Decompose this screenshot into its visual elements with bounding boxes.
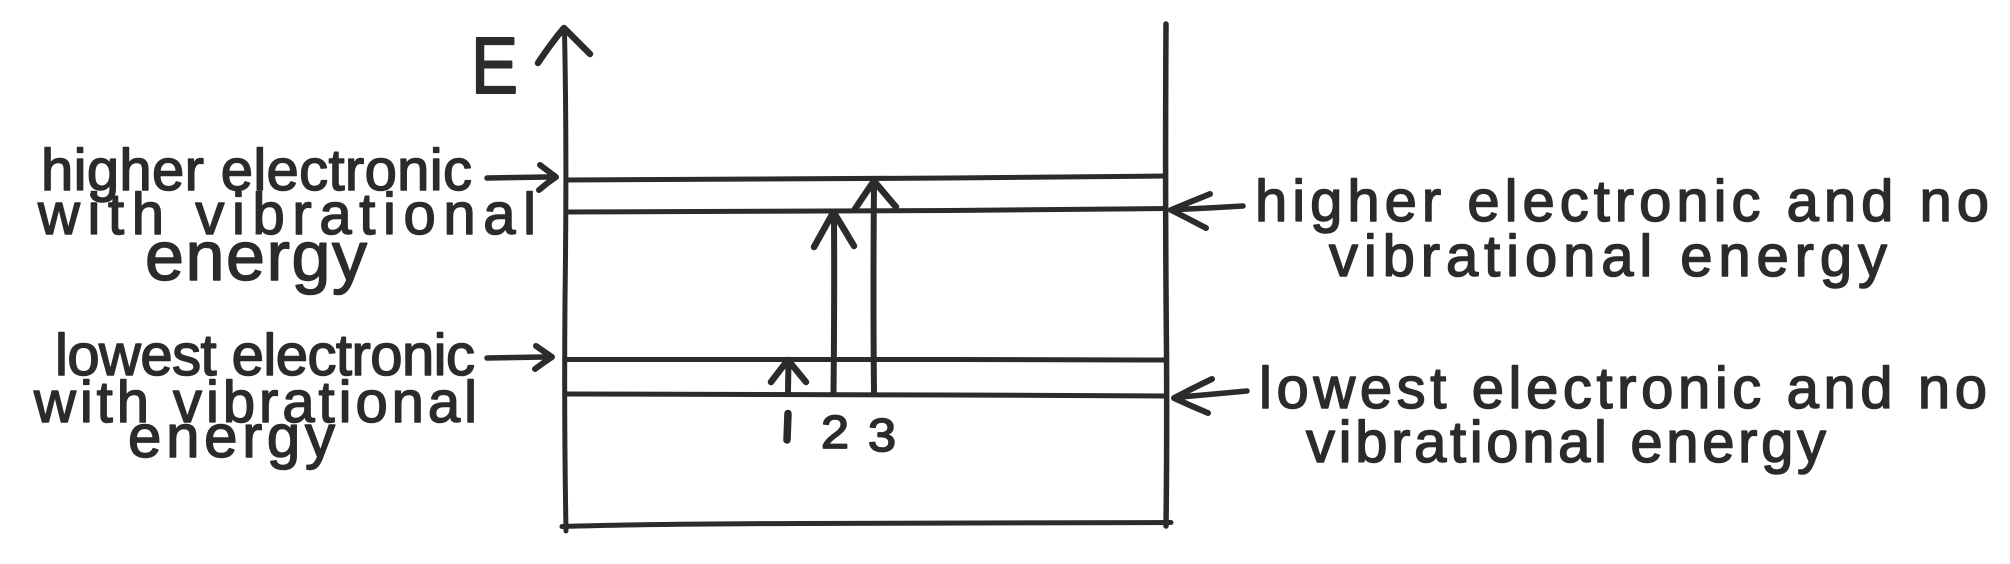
right pointer arrow to level B shaft <box>1178 206 1243 210</box>
right pointer arrow to level B head <box>1171 194 1210 228</box>
right boundary vertical line <box>1166 24 1167 526</box>
right pointer arrow to level D shaft <box>1181 391 1247 397</box>
energy axis arrowhead <box>538 28 590 63</box>
left pointer arrow to level A shaft <box>487 177 548 178</box>
level line C: lowest electronic with vibrational energy <box>566 357 1166 363</box>
transition arrow 1 head <box>771 360 806 382</box>
level line B: higher electronic no vibrational energy <box>566 209 1166 213</box>
left pointer arrow to level C shaft <box>487 357 544 358</box>
left pointer arrow to level C head <box>535 346 552 369</box>
energy axis vertical line <box>565 32 567 531</box>
svg-text:E: E <box>471 21 518 110</box>
right pointer arrow to level D head <box>1174 379 1212 413</box>
svg-text:2: 2 <box>821 406 849 458</box>
left pointer arrow to level A head <box>539 165 556 190</box>
level line D: lowest electronic no vibrational energy <box>566 394 1166 396</box>
svg-text:3: 3 <box>868 409 896 461</box>
svg-text:vibrational energy: vibrational energy <box>1306 410 1826 475</box>
digit 1 <box>787 414 788 441</box>
svg-text:vibrational energy: vibrational energy <box>1329 224 1887 289</box>
bottom line <box>562 523 1171 527</box>
transition arrow 2 shaft <box>831 217 838 394</box>
transition arrow 1 shaft <box>785 362 792 391</box>
svg-text:energy: energy <box>145 217 367 295</box>
transition arrow 3 head <box>855 181 896 209</box>
transition arrow 2 head <box>814 212 854 247</box>
level line A: higher electronic with vibrational energy <box>566 176 1166 180</box>
transition arrow 3 shaft <box>871 185 878 392</box>
